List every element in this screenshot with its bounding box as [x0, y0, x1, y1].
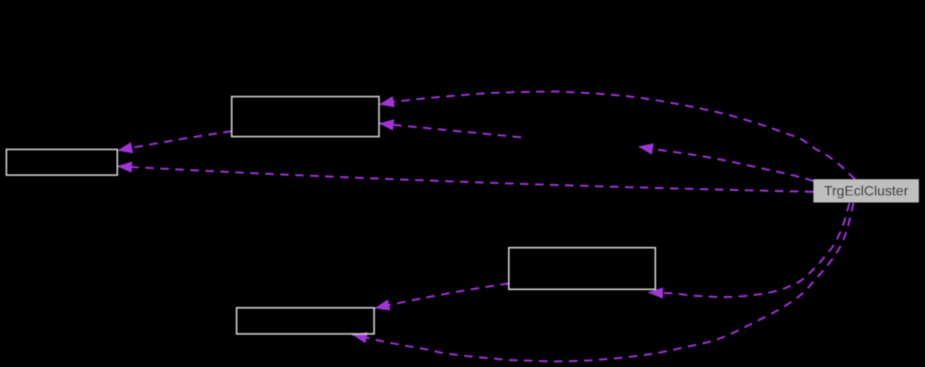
- edge TrgEclCluster to top-middle node (upper curve): [379, 92, 855, 180]
- node left box: [6, 149, 117, 175]
- node top-middle box: [232, 97, 379, 137]
- edge top-middle node to left node: [117, 131, 231, 150]
- edge TrgEclCluster to left node (long line): [117, 166, 813, 192]
- edge TrgEclCluster to bottom-middle node: [648, 203, 850, 297]
- edge TrgEclCluster to hidden node (mid-air arrow): [638, 147, 813, 182]
- node bottom-middle box: [509, 248, 656, 290]
- edge bottom-middle node to bottom-left node: [375, 284, 509, 309]
- svg-text:TrgEclCluster: TrgEclCluster: [824, 183, 909, 199]
- node bottom-left box: [237, 308, 375, 334]
- edge TrgEclCluster to bottom-left node (big bottom curve): [352, 203, 854, 361]
- node TrgEclCluster: [813, 179, 919, 202]
- edge hidden node to top-middle node: [379, 123, 521, 137]
